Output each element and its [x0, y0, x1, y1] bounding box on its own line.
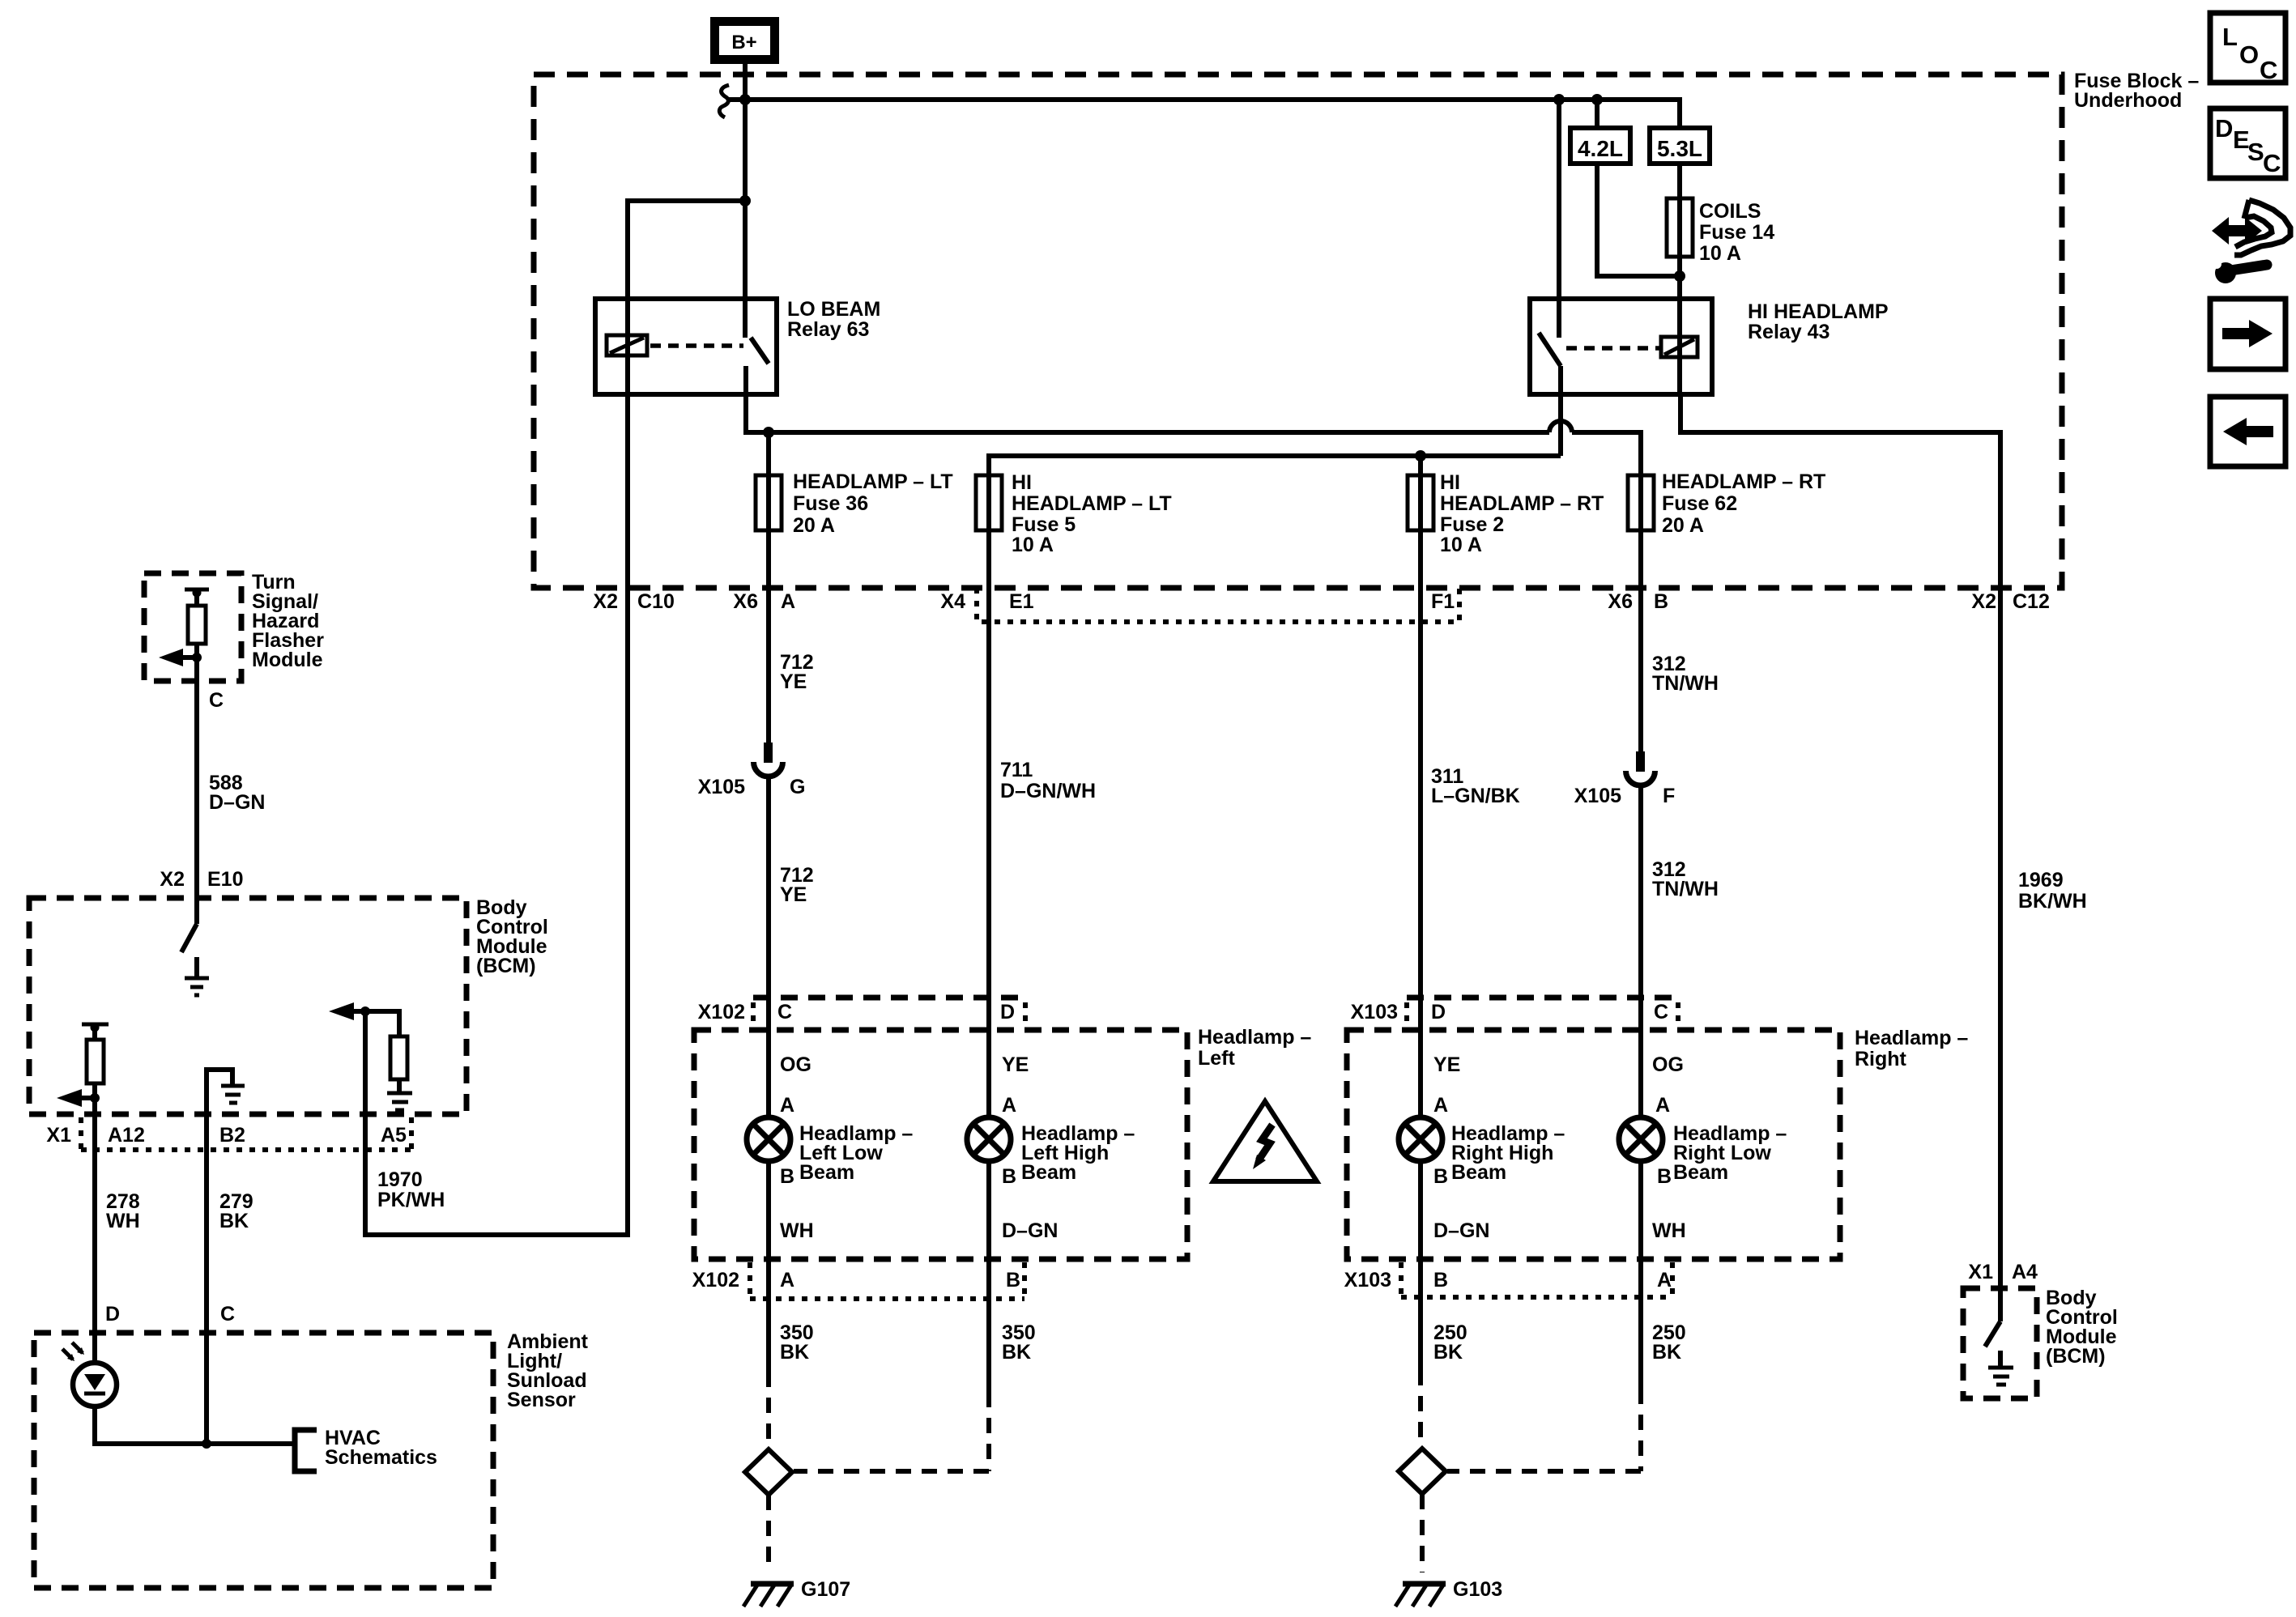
dashed wire splice to G107 [766, 1495, 771, 1572]
LO BEAM Relay 63 [595, 298, 880, 394]
svg-text:X102: X102 [698, 1001, 745, 1023]
svg-text:G: G [790, 776, 805, 798]
wire 5.3L output through COILS fuse to relay 43 coil [1677, 164, 1682, 336]
label 311 L-GN/BK [1431, 765, 1520, 807]
wire 4.2L output to coil node [1597, 164, 1680, 276]
wire 4.2L input [1595, 100, 1600, 128]
svg-text:A: A [781, 590, 795, 613]
wire E1 / 711 D-GN/WH [986, 530, 991, 1117]
svg-text:C: C [777, 1001, 792, 1023]
connector X1 A4 labels right BCM [1968, 1261, 2038, 1283]
svg-text:COILS: COILS [1699, 200, 1761, 223]
inline connector X105 G [698, 743, 806, 798]
pin labels D and C at sensor [105, 1303, 235, 1326]
svg-text:BK: BK [1652, 1341, 1681, 1364]
svg-text:A12: A12 [108, 1124, 145, 1147]
wire relay 43 switch output (straight through hop) [1558, 394, 1563, 456]
svg-text:Fuse 5: Fuse 5 [1012, 513, 1076, 536]
svg-text:OG: OG [780, 1053, 811, 1076]
TSM wire through resistor [194, 593, 199, 924]
bulb Headlamp - Left High Beam [967, 1117, 1135, 1184]
sidebar back arrow box [2210, 397, 2285, 466]
wire relay 43 coil through-path [1677, 336, 1682, 394]
wire 278 WH down to sensor [92, 1098, 97, 1362]
svg-text:A5: A5 [381, 1124, 407, 1147]
svg-text:X2: X2 [593, 590, 618, 613]
svg-text:B: B [780, 1165, 794, 1188]
svg-text:G103: G103 [1453, 1578, 1502, 1601]
svg-text:Beam: Beam [1673, 1161, 1728, 1184]
TSM resistor [188, 606, 206, 644]
wire B+ down to LO BEAM relay switch [743, 64, 748, 338]
junction B+ feed [739, 94, 751, 105]
junction dot sensor common [202, 1439, 211, 1449]
svg-text:Schematics: Schematics [325, 1446, 437, 1469]
svg-text:Fuse 2: Fuse 2 [1440, 513, 1504, 536]
svg-text:X1: X1 [1968, 1261, 1993, 1283]
Body Control Module (BCM) dashed box left [29, 898, 466, 1114]
BCM A5 sense resistor with arrow [329, 1002, 412, 1110]
svg-text:1970: 1970 [377, 1168, 423, 1191]
label Ambient Light/Sunload Sensor [507, 1330, 589, 1411]
svg-text:A: A [1433, 1094, 1448, 1117]
wire 250 BK right high dashed to splice [1418, 1370, 1423, 1447]
label 312 TN/WH [1652, 653, 1719, 695]
label 279 BK [219, 1190, 253, 1232]
wire 1970 link to fuse block C10 [365, 336, 628, 1235]
label 312 TN/WH lower [1652, 858, 1719, 900]
svg-text:HEADLAMP – RT: HEADLAMP – RT [1662, 470, 1825, 493]
svg-text:HEADLAMP – LT: HEADLAMP – LT [793, 470, 953, 493]
svg-text:WH: WH [1652, 1219, 1686, 1242]
label Headlamp - Right [1855, 1027, 1968, 1070]
svg-text:S: S [2247, 138, 2264, 166]
sidebar diagnostic icon: wrench [2212, 259, 2267, 283]
svg-text:X105: X105 [698, 776, 745, 798]
svg-text:(BCM): (BCM) [2046, 1345, 2106, 1368]
svg-text:BK: BK [219, 1210, 249, 1232]
svg-text:5.3L: 5.3L [1657, 136, 1702, 161]
svg-text:X6: X6 [733, 590, 758, 613]
svg-text:C10: C10 [637, 590, 675, 613]
svg-text:20 A: 20 A [793, 514, 835, 537]
svg-text:E10: E10 [207, 868, 243, 891]
svg-text:Underhood: Underhood [2074, 89, 2182, 112]
svg-text:Relay 63: Relay 63 [787, 318, 869, 341]
label 712 YE [780, 651, 814, 693]
svg-text:10 A: 10 A [1699, 242, 1741, 265]
svg-text:(BCM): (BCM) [476, 955, 536, 977]
fuse 5 HI HEADLAMP - LT [976, 471, 1172, 556]
svg-text:X2: X2 [160, 868, 185, 891]
wire 350 BK left high dashed to splice [794, 1392, 989, 1471]
svg-text:BK: BK [1433, 1341, 1463, 1364]
Ambient Light/Sunload Sensor dashed box [34, 1333, 493, 1588]
connector X1 row dotted box [46, 1117, 411, 1150]
connector X103 bottom row [1344, 1262, 1672, 1297]
wire 712 YE lower [766, 777, 771, 1117]
svg-text:Relay 43: Relay 43 [1748, 321, 1830, 343]
svg-text:X2: X2 [1971, 590, 1996, 613]
TSM junction dot [192, 653, 202, 662]
wire 350 BK left high solid [986, 1161, 991, 1392]
wire 350 BK left low dashed to splice [766, 1372, 771, 1448]
svg-text:Beam: Beam [1021, 1161, 1076, 1184]
sidebar diagnostic icon: pointer outline [2234, 200, 2290, 255]
Headlamp - Left dashed box [694, 1030, 1187, 1259]
svg-text:PK/WH: PK/WH [377, 1189, 445, 1211]
fusible link symbol at B+ feed [719, 85, 729, 117]
svg-text:TN/WH: TN/WH [1652, 672, 1719, 695]
ground wire labels 350 BK / 250 BK [780, 1321, 1686, 1364]
wire branch to LO relay coil [628, 201, 745, 336]
svg-text:Sensor: Sensor [507, 1389, 576, 1411]
svg-text:YE: YE [780, 670, 807, 693]
pin color labels row OG/YE [780, 1053, 1684, 1076]
BCM A12 arrow out [57, 1089, 95, 1107]
svg-text:Beam: Beam [799, 1161, 854, 1184]
junction LO coil branch [739, 195, 751, 206]
Body Control Module (BCM) dashed box right [1963, 1288, 2037, 1398]
pin color labels row WH/D-GN [780, 1219, 1686, 1242]
B+ battery terminal [710, 17, 779, 64]
svg-text:B: B [1433, 1165, 1448, 1188]
Turn Signal / Hazard Flasher Module dashed box [144, 573, 241, 681]
svg-text:D–GN: D–GN [1433, 1219, 1489, 1242]
svg-text:HI HEADLAMP: HI HEADLAMP [1748, 300, 1889, 323]
bulb Headlamp - Right Low Beam [1619, 1117, 1787, 1184]
label Body Control Module (BCM) [476, 896, 548, 977]
svg-text:D–GN: D–GN [209, 791, 265, 814]
Headlamp - Right dashed box [1347, 1030, 1840, 1259]
junction fuse 36 feed [763, 427, 774, 438]
BCM E10 ground [185, 957, 209, 995]
HI HEADLAMP Relay 43 [1530, 299, 1889, 394]
wire X6-B / 312 TN/WH upper [1638, 530, 1643, 772]
svg-text:X6: X6 [1608, 590, 1633, 613]
svg-text:D: D [1000, 1001, 1015, 1023]
svg-text:YE: YE [1002, 1053, 1029, 1076]
wire 279 BK down to sensor junction [204, 1114, 209, 1444]
wire HI beam rail [989, 456, 1561, 475]
svg-text:X105: X105 [1574, 785, 1621, 807]
svg-text:HI: HI [1440, 471, 1460, 494]
svg-text:C: C [209, 689, 224, 712]
pin A labels [780, 1094, 1670, 1117]
4.2L box [1570, 128, 1630, 164]
svg-text:Fuse 14: Fuse 14 [1699, 221, 1774, 244]
svg-text:WH: WH [780, 1219, 814, 1242]
wire relay 43 switch input [1557, 100, 1561, 338]
svg-text:Headlamp –: Headlamp – [1198, 1026, 1311, 1049]
svg-text:A: A [780, 1094, 794, 1117]
junction fuse 2 feed [1415, 450, 1426, 462]
X4 connector dotted box E1-F1 [977, 588, 1459, 622]
BCM E10 switch blade [181, 924, 197, 952]
ground G103 [1395, 1578, 1502, 1606]
BCM B2 internal ground [207, 1070, 245, 1114]
svg-text:BK: BK [1002, 1341, 1031, 1364]
svg-text:LO BEAM: LO BEAM [787, 298, 880, 321]
svg-text:G107: G107 [801, 1578, 850, 1601]
svg-text:A: A [1002, 1094, 1016, 1117]
svg-text:Beam: Beam [1451, 1161, 1506, 1184]
svg-text:C: C [2263, 149, 2281, 177]
svg-text:Fuse 36: Fuse 36 [793, 492, 868, 515]
connector X2 E10 labels [160, 868, 243, 891]
svg-text:X4: X4 [940, 590, 965, 613]
sidebar DESC box [2210, 109, 2285, 178]
TSM internal node bar [185, 588, 209, 592]
wire LO relay switch output rail with hop over HI wire [746, 394, 1549, 432]
wire down to fuse 36 [766, 432, 771, 475]
svg-text:C: C [220, 1303, 235, 1326]
TSM node dot [193, 589, 202, 598]
pin B labels [780, 1165, 1672, 1188]
wire 350 BK left low solid [766, 1161, 771, 1372]
svg-text:10 A: 10 A [1012, 534, 1054, 556]
svg-text:OG: OG [1652, 1053, 1684, 1076]
svg-text:D: D [105, 1303, 120, 1326]
svg-text:BK/WH: BK/WH [2018, 890, 2087, 913]
wire main feed horizontal [726, 100, 1680, 128]
wire F1 / 311 L-GN/BK [1418, 530, 1423, 1117]
svg-text:D–GN/WH: D–GN/WH [1000, 780, 1096, 802]
label Fuse Block - Underhood [2074, 70, 2199, 112]
svg-text:C: C [1654, 1001, 1668, 1023]
svg-text:X103: X103 [1351, 1001, 1398, 1023]
BCM A12 sense resistor with node [82, 1023, 109, 1115]
svg-text:YE: YE [780, 883, 807, 906]
svg-text:L–GN/BK: L–GN/BK [1431, 785, 1520, 807]
connector X102 top row [698, 998, 1025, 1023]
svg-text:D: D [2215, 114, 2233, 143]
junction relay 43 switch feed [1553, 94, 1565, 105]
svg-text:C12: C12 [2013, 590, 2050, 613]
svg-text:BK: BK [780, 1341, 809, 1364]
splice diamond left [745, 1449, 792, 1495]
label Headlamp - Left [1198, 1026, 1311, 1070]
label 588 D-GN [209, 772, 265, 814]
svg-text:B: B [1654, 590, 1668, 613]
svg-text:O: O [2239, 40, 2259, 69]
label 1970 PK/WH [377, 1168, 445, 1211]
svg-text:B: B [1657, 1165, 1672, 1188]
svg-text:HI: HI [1012, 471, 1032, 494]
svg-text:Headlamp –: Headlamp – [1855, 1027, 1968, 1049]
label 711 D-GN/WH [1000, 759, 1096, 802]
Fuse Block - Underhood dashed box [534, 74, 2062, 588]
BCM A4 ground [1988, 1351, 2013, 1385]
svg-text:Left: Left [1198, 1047, 1236, 1070]
wire 250 BK right low solid [1638, 1161, 1643, 1389]
wire 250 BK right low dashed to splice [1447, 1389, 1641, 1471]
ground G107 [743, 1578, 850, 1606]
svg-text:HEADLAMP – LT: HEADLAMP – LT [1012, 492, 1172, 515]
connector X103 top row [1351, 998, 1678, 1023]
fuse 62 HEADLAMP - RT [1628, 470, 1825, 537]
fuse 2 HI HEADLAMP - RT [1408, 471, 1604, 556]
svg-text:WH: WH [106, 1210, 140, 1232]
splice diamond right [1399, 1449, 1446, 1494]
svg-text:B: B [1006, 1269, 1020, 1291]
TSM arrow out [180, 655, 197, 660]
label 278 WH [106, 1190, 140, 1232]
wire down to fuse 2 [1418, 456, 1423, 475]
warning triangle with lightning bolt [1213, 1101, 1317, 1181]
svg-text:E1: E1 [1009, 590, 1034, 613]
svg-text:1969: 1969 [2018, 869, 2064, 891]
5.3L box [1650, 128, 1710, 164]
svg-text:Module: Module [252, 649, 323, 671]
svg-text:C: C [2260, 56, 2277, 84]
photodiode [62, 1343, 117, 1406]
label 712 YE lower [780, 864, 814, 906]
svg-text:10 A: 10 A [1440, 534, 1482, 556]
wire relay 43 coil output to C12 [1680, 394, 2000, 1321]
bulb Headlamp - Left Low Beam [747, 1117, 913, 1184]
junction 4.2L feed [1591, 94, 1603, 105]
svg-text:TN/WH: TN/WH [1652, 878, 1719, 900]
svg-text:A: A [1657, 1269, 1672, 1291]
BCM A12 junction dot [90, 1093, 100, 1103]
COILS Fuse 14 10 A [1667, 198, 1774, 265]
wire 312 TN/WH lower [1638, 785, 1643, 1117]
svg-text:A: A [1655, 1094, 1670, 1117]
wire photodiode down and right to HVAC [95, 1406, 295, 1444]
svg-text:B: B [1433, 1269, 1448, 1291]
svg-text:X102: X102 [692, 1269, 739, 1291]
svg-text:Right: Right [1855, 1048, 1907, 1070]
svg-text:YE: YE [1433, 1053, 1460, 1076]
dashed wire splice to G103 [1420, 1494, 1425, 1572]
label Turn Signal/Hazard Flasher Module [252, 571, 324, 671]
sidebar LOC box [2210, 13, 2285, 84]
svg-text:A: A [780, 1269, 794, 1291]
svg-text:HEADLAMP – RT: HEADLAMP – RT [1440, 492, 1604, 515]
junction coils fuse output [1674, 270, 1685, 282]
sidebar diagnostic icon: double arrow [2212, 217, 2262, 245]
svg-text:20 A: 20 A [1662, 514, 1704, 537]
svg-text:711: 711 [1000, 759, 1033, 781]
svg-text:B: B [1002, 1165, 1016, 1188]
svg-text:A4: A4 [2012, 1261, 2038, 1283]
svg-text:L: L [2222, 23, 2238, 51]
svg-text:Fuse 62: Fuse 62 [1662, 492, 1737, 515]
connector labels under fuse block [593, 590, 2049, 613]
svg-text:D: D [1431, 1001, 1446, 1023]
svg-text:F1: F1 [1431, 590, 1455, 613]
label 1969 BK/WH [2018, 869, 2087, 913]
svg-text:D–GN: D–GN [1002, 1219, 1058, 1242]
inline connector X105 F [1574, 751, 1676, 807]
sidebar next arrow box [2210, 299, 2285, 369]
svg-text:F: F [1663, 785, 1675, 807]
svg-text:X1: X1 [46, 1124, 71, 1147]
fuse 36 HEADLAMP - LT [756, 470, 953, 537]
wire X6-A / 712 YE upper [766, 530, 771, 763]
svg-text:4.2L: 4.2L [1578, 136, 1623, 161]
connector X102 bottom row [692, 1262, 1024, 1299]
label Body Control Module (BCM) right [2046, 1287, 2118, 1368]
wire 250 BK right high solid [1418, 1161, 1423, 1370]
bulb Headlamp - Right High Beam [1399, 1117, 1565, 1184]
svg-text:X103: X103 [1344, 1269, 1391, 1291]
svg-text:B2: B2 [219, 1124, 245, 1147]
svg-text:B+: B+ [731, 32, 756, 53]
HVAC schematics bracket [295, 1427, 437, 1471]
BCM A4 switch blade [1985, 1321, 2000, 1347]
